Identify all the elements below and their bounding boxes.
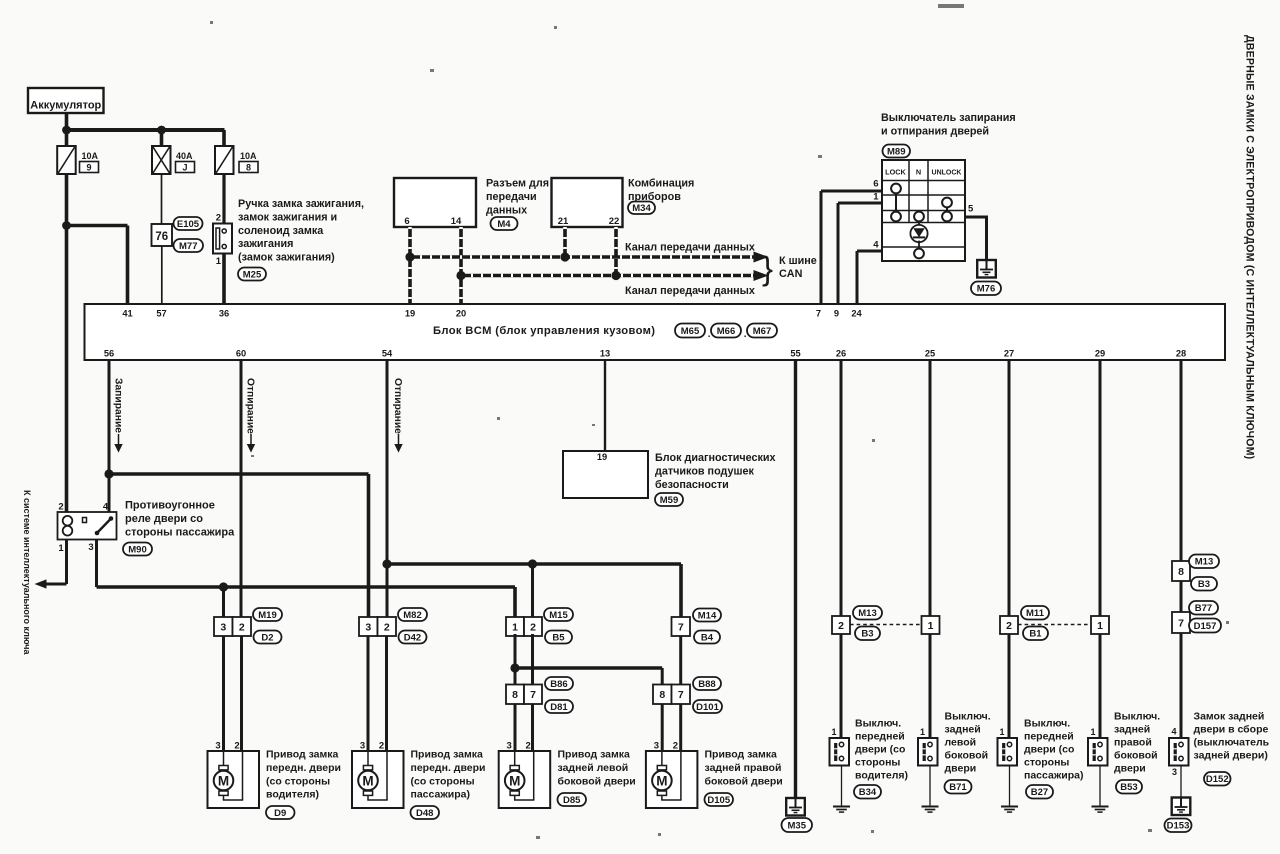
svg-text:25: 25 bbox=[925, 349, 935, 359]
wire drop to B5 pin1 bbox=[513, 587, 517, 617]
wire BCM pin55 to ground M35 bbox=[794, 360, 797, 798]
svg-text:стороны пассажира: стороны пассажира bbox=[125, 527, 235, 539]
fuse 10A 8 bbox=[215, 146, 234, 174]
svg-text:двери: двери bbox=[1114, 763, 1146, 775]
wire battery bus horizontal bbox=[65, 128, 225, 132]
svg-text:M13: M13 bbox=[1195, 557, 1213, 568]
wire relay pin1 to smart key system bbox=[65, 540, 68, 585]
svg-text:Канал передачи данных: Канал передачи данных bbox=[625, 242, 755, 254]
CAN bus line upper bbox=[410, 255, 755, 259]
wire branch to BCM pin41 bbox=[67, 224, 128, 228]
svg-text:пассажира): пассажира) bbox=[1024, 770, 1083, 782]
svg-text:57: 57 bbox=[156, 309, 166, 319]
svg-text:Комбинация: Комбинация bbox=[628, 178, 694, 190]
wire D81 pin7 to actuator D85 bbox=[531, 704, 534, 751]
svg-text:19: 19 bbox=[597, 452, 607, 462]
ground B34 bbox=[833, 806, 850, 808]
junction battery bus left bbox=[62, 126, 71, 135]
ground B71 bbox=[922, 806, 939, 808]
junction CAN upper pin19 bbox=[405, 252, 414, 261]
svg-text:Выключ.: Выключ. bbox=[855, 718, 901, 730]
svg-text:D81: D81 bbox=[550, 702, 568, 713]
CAN wire M4 pin6 to BCM pin19 bbox=[408, 227, 412, 304]
svg-text:M89: M89 bbox=[887, 146, 905, 157]
svg-text:10A: 10A bbox=[240, 151, 257, 161]
connector M19/D2 bbox=[214, 617, 233, 636]
wire B34 to ground bbox=[841, 766, 843, 807]
svg-text:(замок зажигания): (замок зажигания) bbox=[238, 252, 335, 264]
wire relay pin3 lock output bbox=[95, 540, 98, 588]
svg-text:M4: M4 bbox=[497, 219, 511, 230]
svg-text:B34: B34 bbox=[859, 787, 877, 798]
connector pin1 right bbox=[1091, 616, 1109, 634]
svg-text:10A: 10A bbox=[82, 151, 99, 161]
svg-text:J: J bbox=[182, 163, 187, 173]
wire BCM pin28 back door lock bbox=[1180, 360, 1183, 561]
wire D42 pin2 to actuator D48 bbox=[385, 636, 388, 751]
svg-text:(со стороны: (со стороны bbox=[266, 775, 330, 787]
wire rear unlock branch bbox=[387, 562, 681, 566]
door lock actuator D9 bbox=[208, 751, 260, 808]
svg-text:M59: M59 bbox=[660, 495, 678, 506]
svg-text:28: 28 bbox=[1176, 349, 1186, 359]
svg-text:55: 55 bbox=[790, 349, 800, 359]
svg-text:27: 27 bbox=[1004, 349, 1014, 359]
pin 1 stub M89 bbox=[838, 202, 882, 205]
svg-text:данных: данных bbox=[486, 204, 527, 216]
svg-text:B71: B71 bbox=[949, 782, 967, 793]
wire 76 to BCM pin57 bbox=[161, 246, 163, 304]
svg-text:соленоид замка: соленоид замка bbox=[238, 225, 324, 237]
svg-text:(выключатель: (выключатель bbox=[1194, 737, 1270, 749]
svg-text:N: N bbox=[916, 168, 921, 177]
svg-text:стороны: стороны bbox=[855, 757, 900, 769]
svg-text:M: M bbox=[656, 773, 667, 788]
svg-text:Канал передачи данных: Канал передачи данных bbox=[625, 285, 755, 297]
connector B88/D101 bbox=[653, 685, 672, 705]
svg-text:M66: M66 bbox=[717, 326, 735, 337]
door lock actuator D48 bbox=[352, 751, 404, 808]
junction rear unlock bbox=[382, 559, 391, 568]
svg-text:боковой: боковой bbox=[945, 750, 989, 762]
svg-text:3: 3 bbox=[365, 621, 371, 633]
svg-text:B3: B3 bbox=[1198, 579, 1210, 590]
svg-text:задней правой: задней правой bbox=[705, 762, 782, 774]
svg-text:D85: D85 bbox=[563, 795, 581, 806]
svg-text:правой: правой bbox=[1114, 737, 1152, 749]
airbag diagnostic sensor unit M59 bbox=[563, 451, 648, 498]
svg-text:боковой: боковой bbox=[1114, 750, 1158, 762]
wire BCM pin29 rear-right door switch bbox=[1099, 360, 1102, 616]
svg-text:1: 1 bbox=[58, 543, 64, 554]
wire B53 to ground bbox=[1099, 766, 1101, 807]
svg-text:Выключатель запирания: Выключатель запирания bbox=[881, 112, 1016, 124]
svg-text:4: 4 bbox=[103, 502, 109, 513]
pin 5 stub M89 bbox=[965, 216, 987, 219]
svg-text:B27: B27 bbox=[1031, 787, 1048, 798]
svg-text:60: 60 bbox=[236, 349, 246, 359]
svg-text:Разъем для: Разъем для bbox=[486, 178, 549, 190]
junction CAN lower pin20 bbox=[456, 271, 465, 280]
svg-text:3: 3 bbox=[360, 741, 365, 752]
svg-text:7: 7 bbox=[530, 689, 536, 701]
svg-text:54: 54 bbox=[382, 349, 393, 359]
svg-text:M35: M35 bbox=[788, 820, 807, 831]
svg-text:B88: B88 bbox=[698, 679, 715, 690]
svg-text:замок зажигания и: замок зажигания и bbox=[238, 211, 337, 223]
svg-text:водителя): водителя) bbox=[855, 770, 908, 782]
svg-text:76: 76 bbox=[155, 231, 168, 243]
svg-text:Привод замка: Привод замка bbox=[266, 749, 339, 761]
svg-text:Выключ.: Выключ. bbox=[1024, 718, 1070, 730]
svg-text:14: 14 bbox=[451, 216, 462, 227]
svg-text:передней: передней bbox=[855, 731, 905, 743]
connector M14/B4 bbox=[672, 617, 691, 636]
wire D81 pin8 to actuator D85 bbox=[514, 704, 517, 751]
contact LOCK column bbox=[891, 184, 901, 194]
junction lock feed bbox=[104, 469, 113, 478]
svg-text:задней левой: задней левой bbox=[558, 762, 629, 774]
svg-text:9: 9 bbox=[86, 163, 91, 173]
wire BCM pin54 unlock feed rear bbox=[386, 360, 389, 617]
svg-text:M: M bbox=[362, 773, 373, 788]
svg-text:1: 1 bbox=[831, 727, 836, 737]
svg-text:26: 26 bbox=[836, 349, 846, 359]
svg-text:B53: B53 bbox=[1120, 782, 1137, 793]
svg-text:4: 4 bbox=[1171, 727, 1176, 737]
svg-text:1: 1 bbox=[873, 192, 879, 203]
svg-text:B4: B4 bbox=[701, 632, 714, 643]
data link connector M4 bbox=[394, 178, 476, 227]
svg-text:2: 2 bbox=[234, 741, 239, 752]
svg-text:двери (со: двери (со bbox=[855, 744, 905, 756]
svg-text:M19: M19 bbox=[258, 610, 276, 621]
svg-text:3: 3 bbox=[507, 741, 512, 752]
svg-text:и отпирания дверей: и отпирания дверей bbox=[881, 126, 989, 138]
svg-text:CAN: CAN bbox=[779, 268, 803, 280]
wire B5 pin1 down bbox=[514, 634, 517, 685]
svg-text:1: 1 bbox=[920, 727, 925, 737]
ground M76 bbox=[977, 260, 996, 278]
svg-text:левой: левой bbox=[945, 737, 977, 749]
wire to rear-right switch bbox=[1099, 634, 1102, 738]
svg-text:безопасности: безопасности bbox=[655, 479, 729, 491]
svg-text:Выключ.: Выключ. bbox=[1114, 711, 1160, 723]
svg-text:3: 3 bbox=[1172, 767, 1177, 777]
svg-text:6: 6 bbox=[404, 216, 409, 227]
wire B27 to ground bbox=[1009, 766, 1011, 807]
svg-text:7: 7 bbox=[1178, 617, 1184, 629]
contact UNLOCK column bbox=[942, 198, 952, 208]
CAN bus line lower bbox=[461, 274, 755, 278]
wire M89 pin5 to ground M76 bbox=[985, 216, 988, 261]
wire D2 pin2 to actuator D9 bbox=[240, 636, 243, 751]
svg-text:2: 2 bbox=[1006, 620, 1012, 632]
ground M35 bbox=[786, 798, 805, 816]
wire B5 pin2 down bbox=[531, 634, 534, 685]
CAN wire M34 pin22 drop bbox=[614, 227, 618, 276]
connector 76 E105/M77 bbox=[152, 224, 173, 246]
svg-text:Отпирание: Отпирание bbox=[245, 378, 256, 434]
svg-text:2: 2 bbox=[673, 741, 678, 752]
fuse 10A 9 bbox=[57, 146, 75, 174]
svg-text:21: 21 bbox=[558, 216, 569, 227]
svg-text:3: 3 bbox=[220, 621, 226, 633]
svg-text:боковой двери: боковой двери bbox=[558, 775, 636, 787]
svg-text:7: 7 bbox=[678, 621, 684, 633]
svg-text:2: 2 bbox=[526, 741, 531, 752]
svg-text:M14: M14 bbox=[698, 610, 717, 621]
svg-text:20: 20 bbox=[456, 309, 466, 319]
svg-text:D42: D42 bbox=[404, 632, 421, 643]
wire fuse8 top bbox=[222, 130, 226, 146]
pin 6 stub M89 bbox=[821, 190, 882, 193]
wire BCM pin13 to airbag unit bbox=[604, 360, 606, 451]
junction battery bus mid bbox=[157, 126, 166, 135]
svg-text:2: 2 bbox=[384, 621, 390, 633]
wire D101 pin8 to actuator D105 bbox=[661, 704, 664, 751]
svg-text:M25: M25 bbox=[243, 269, 262, 280]
svg-text:8: 8 bbox=[1178, 566, 1184, 578]
svg-text:19: 19 bbox=[405, 309, 415, 319]
svg-text:}: } bbox=[762, 250, 773, 287]
wire BCM pin26 driver door switch bbox=[840, 360, 843, 616]
svg-text:1: 1 bbox=[512, 621, 518, 633]
svg-text:M65: M65 bbox=[681, 326, 700, 337]
svg-text:9: 9 bbox=[834, 309, 839, 319]
svg-text:D157: D157 bbox=[1194, 621, 1217, 632]
junction CAN upper pin21 bbox=[560, 252, 569, 261]
wire branch to D101 pin8 bbox=[515, 666, 662, 670]
svg-text:пассажира): пассажира) bbox=[411, 789, 470, 801]
connector pin7 B77/D157 bbox=[1172, 612, 1190, 633]
svg-text:B86: B86 bbox=[550, 679, 567, 690]
svg-text:2: 2 bbox=[838, 620, 844, 632]
CAN wire M4 pin14 to BCM pin20 bbox=[459, 227, 463, 304]
svg-text:боковой двери: боковой двери bbox=[705, 775, 783, 787]
connector M15/B5 bbox=[506, 617, 524, 636]
svg-text:29: 29 bbox=[1095, 349, 1105, 359]
svg-text:ДВЕРНЫЕ ЗАМКИ С ЭЛЕКТРОПРИВОДО: ДВЕРНЫЕ ЗАМКИ С ЭЛЕКТРОПРИВОДОМ (С ИНТЕЛ… bbox=[1244, 35, 1256, 459]
svg-text:22: 22 bbox=[609, 216, 620, 227]
CAN wire M34 pin21 drop bbox=[563, 227, 567, 257]
svg-text:M77: M77 bbox=[179, 241, 197, 252]
junction rear-left unlock bbox=[528, 559, 537, 568]
svg-text:двери (со: двери (со bbox=[1024, 744, 1074, 756]
ground D153 bbox=[1172, 798, 1191, 816]
svg-text:M90: M90 bbox=[128, 544, 146, 555]
svg-text:8: 8 bbox=[512, 689, 518, 701]
wire D152 to ground D153 bbox=[1180, 766, 1182, 798]
svg-text:Блок BCM (блок управления кузо: Блок BCM (блок управления кузовом) bbox=[433, 325, 655, 337]
connector B86/D81 bbox=[506, 685, 524, 705]
svg-text:Выключ.: Выключ. bbox=[945, 711, 991, 723]
battery bbox=[28, 88, 104, 113]
svg-text:2: 2 bbox=[530, 621, 536, 633]
wire drop to B5 pin2 bbox=[531, 564, 534, 617]
svg-text:Запирание: Запирание bbox=[113, 378, 124, 433]
wire lock feed to connector D42 pin3 bbox=[109, 472, 369, 476]
svg-text:D105: D105 bbox=[707, 795, 730, 806]
pin 4 stub M89 bbox=[857, 250, 882, 253]
junction CAN lower pin22 bbox=[611, 271, 620, 280]
svg-text:Отпирание: Отпирание bbox=[392, 378, 403, 434]
wire battery to relay pin2 bbox=[65, 226, 69, 513]
svg-text:D152: D152 bbox=[1206, 774, 1229, 785]
svg-text:задней двери): задней двери) bbox=[1194, 750, 1268, 762]
svg-text:двери в сборе: двери в сборе bbox=[1194, 724, 1269, 736]
svg-text:36: 36 bbox=[219, 309, 229, 319]
svg-text:2: 2 bbox=[58, 502, 63, 513]
svg-text:M82: M82 bbox=[403, 610, 421, 621]
svg-text:датчиков подушек: датчиков подушек bbox=[655, 465, 755, 477]
svg-text:41: 41 bbox=[122, 309, 132, 319]
svg-text:5: 5 bbox=[968, 204, 974, 215]
svg-text:B1: B1 bbox=[1029, 629, 1042, 640]
svg-text:D9: D9 bbox=[274, 808, 286, 819]
wire M89 pin1 to BCM pin9 bbox=[837, 203, 840, 304]
connector pin2 M11/B1 bbox=[1000, 616, 1018, 634]
svg-text:передн. двери: передн. двери bbox=[266, 762, 341, 774]
svg-text:4: 4 bbox=[873, 240, 879, 251]
svg-text:M13: M13 bbox=[858, 608, 876, 619]
svg-text:M: M bbox=[218, 773, 229, 788]
svg-text:двери: двери bbox=[945, 763, 977, 775]
fuse 40A J bbox=[152, 146, 171, 174]
wire BCM pin25 rear-left door switch bbox=[929, 360, 932, 616]
wire drop to B4 pin7 bbox=[679, 564, 683, 617]
svg-text:7: 7 bbox=[816, 309, 821, 319]
svg-text:2: 2 bbox=[239, 621, 245, 633]
svg-text:13: 13 bbox=[600, 349, 610, 359]
wire fuse J to connector 76 bbox=[161, 174, 163, 224]
contact N column with diode bbox=[914, 212, 924, 222]
svg-text:Противоугонное: Противоугонное bbox=[125, 500, 215, 512]
wire to rear-left switch bbox=[929, 634, 932, 738]
svg-text:Блок диагностических: Блок диагностических bbox=[655, 452, 776, 464]
svg-text:7: 7 bbox=[678, 689, 684, 701]
svg-text:B3: B3 bbox=[861, 629, 873, 640]
svg-text:8: 8 bbox=[659, 689, 665, 701]
svg-text:8: 8 bbox=[246, 163, 251, 173]
door lock actuator D85 bbox=[499, 751, 551, 808]
connector M82/D42 bbox=[359, 617, 378, 636]
wire M89 pin4 to BCM pin24 bbox=[856, 251, 859, 304]
svg-text:D48: D48 bbox=[416, 808, 433, 819]
svg-text:40A: 40A bbox=[176, 151, 193, 161]
ground B53 bbox=[1092, 806, 1109, 808]
junction lock output to D2 bbox=[219, 582, 228, 591]
wire BCM pin27 passenger door switch bbox=[1008, 360, 1011, 616]
wire D42 pin3 to actuator D48 bbox=[367, 636, 370, 751]
svg-text:3: 3 bbox=[654, 741, 659, 752]
wire M25 to BCM pin36 bbox=[222, 254, 226, 305]
wire D101 pin7 to actuator D105 bbox=[679, 704, 682, 751]
svg-text:Привод замка: Привод замка bbox=[411, 749, 484, 761]
junction rear-lock branch bbox=[510, 663, 519, 672]
connector pin2 M13/B3 bbox=[832, 616, 850, 634]
svg-text:M76: M76 bbox=[977, 284, 995, 295]
svg-text:M34: M34 bbox=[632, 203, 651, 214]
svg-text:M15: M15 bbox=[549, 610, 568, 621]
combination meter M34 bbox=[552, 178, 623, 227]
svg-text:1: 1 bbox=[1090, 727, 1095, 737]
wire BCM pin56 lock feed bbox=[108, 360, 111, 512]
svg-text:M11: M11 bbox=[1026, 608, 1045, 619]
dashed connector link driver bbox=[850, 624, 922, 626]
svg-text:1: 1 bbox=[1097, 620, 1103, 632]
svg-text:передачи: передачи bbox=[486, 191, 537, 203]
wire M89 pin6 to BCM pin7 bbox=[820, 191, 823, 304]
svg-text:3: 3 bbox=[215, 741, 220, 752]
svg-text:задней: задней bbox=[945, 724, 981, 736]
svg-text:К шине: К шине bbox=[779, 255, 817, 267]
svg-text:Ручка замка зажигания,: Ручка замка зажигания, bbox=[238, 198, 364, 210]
svg-text:24: 24 bbox=[851, 309, 862, 319]
junction ignition branch bbox=[62, 221, 71, 230]
svg-text:Привод замка: Привод замка bbox=[705, 749, 778, 761]
svg-text:M67: M67 bbox=[753, 326, 771, 337]
svg-text:D153: D153 bbox=[1167, 821, 1190, 832]
svg-text:6: 6 bbox=[873, 179, 878, 190]
wire B4 pin7 to D101 pin7 bbox=[679, 636, 682, 685]
door lock actuator D105 bbox=[646, 751, 698, 808]
wire to driver door switch bbox=[840, 634, 843, 738]
wire between connectors back door bbox=[1180, 581, 1183, 612]
svg-text:передн. двери: передн. двери bbox=[411, 762, 486, 774]
svg-text:Привод замка: Привод замка bbox=[558, 749, 631, 761]
svg-text:водителя): водителя) bbox=[266, 789, 319, 801]
wire to passenger door switch bbox=[1008, 634, 1011, 738]
wire battery feed vertical bbox=[65, 113, 69, 146]
svg-text:D101: D101 bbox=[696, 702, 719, 713]
lock-unlock switch M89 body bbox=[882, 160, 965, 261]
svg-text:UNLOCK: UNLOCK bbox=[932, 170, 962, 177]
svg-text:задней: задней bbox=[1114, 724, 1150, 736]
ground B27 bbox=[1001, 806, 1018, 808]
wire fuse J top bbox=[160, 130, 164, 146]
svg-text:B5: B5 bbox=[552, 632, 565, 643]
svg-text:LOCK: LOCK bbox=[885, 168, 906, 177]
wire fuse8 to ignition switch bbox=[222, 174, 225, 224]
connector pin8 M13/B3 back door bbox=[1172, 561, 1190, 581]
svg-text:2: 2 bbox=[216, 213, 221, 224]
svg-text:56: 56 bbox=[104, 349, 114, 359]
svg-text:реле двери со: реле двери со bbox=[125, 513, 203, 525]
svg-text:B77: B77 bbox=[1195, 603, 1212, 614]
svg-text:стороны: стороны bbox=[1024, 757, 1069, 769]
connector pin1 left bbox=[922, 616, 940, 634]
svg-text:Замок задней: Замок задней bbox=[1194, 711, 1265, 723]
wire BCM pin60 unlock feed bbox=[240, 360, 243, 617]
anti-theft door relay M90 bbox=[58, 512, 117, 540]
BCM body control module bbox=[85, 304, 1226, 360]
svg-text:1: 1 bbox=[216, 256, 222, 267]
svg-text:2: 2 bbox=[379, 741, 384, 752]
svg-text:К системе интеллектуального кл: К системе интеллектуального ключа bbox=[22, 490, 32, 655]
svg-text:зажигания: зажигания bbox=[238, 238, 293, 250]
wire fuse9 to junction bbox=[65, 174, 69, 227]
svg-text:E105: E105 bbox=[177, 219, 200, 230]
dashed connector link passenger bbox=[1018, 624, 1091, 626]
svg-text:3: 3 bbox=[88, 542, 93, 553]
wire B71 to ground bbox=[929, 766, 931, 807]
svg-text:передней: передней bbox=[1024, 731, 1074, 743]
svg-text:1: 1 bbox=[928, 620, 934, 632]
ignition key switch M25 bbox=[213, 224, 232, 254]
wire drop to D2 pin3 bbox=[222, 587, 225, 617]
svg-text:M: M bbox=[509, 773, 520, 788]
